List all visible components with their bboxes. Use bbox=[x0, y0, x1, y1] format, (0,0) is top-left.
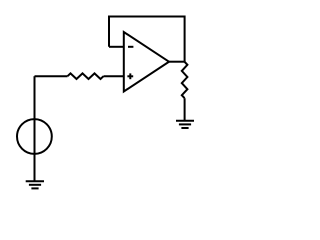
wire: source top lead (through source circle down to ground) bbox=[34, 76, 36, 181]
wire: R1 to op-amp + input bbox=[104, 75, 124, 77]
label: non-inverting input plus sign bbox=[127, 75, 133, 77]
wire: non-inverting input net (source to R1) bbox=[35, 75, 68, 77]
ground (left, below source) bbox=[26, 181, 44, 188]
resistor R1 (series, horizontal) bbox=[68, 73, 104, 79]
ground (right, below R2) bbox=[176, 121, 194, 128]
wire: feedback loop (output to inverting input) bbox=[109, 17, 185, 62]
label: inverting input minus sign bbox=[128, 46, 133, 48]
wire: inverting input segment bbox=[109, 46, 124, 48]
wire: op-amp output bbox=[169, 61, 185, 63]
source V1 (circle) bbox=[17, 119, 52, 154]
wire: R2 to ground bbox=[184, 98, 186, 121]
resistor R2 (load, vertical) bbox=[182, 62, 188, 98]
op-amp U1 bbox=[124, 32, 169, 92]
